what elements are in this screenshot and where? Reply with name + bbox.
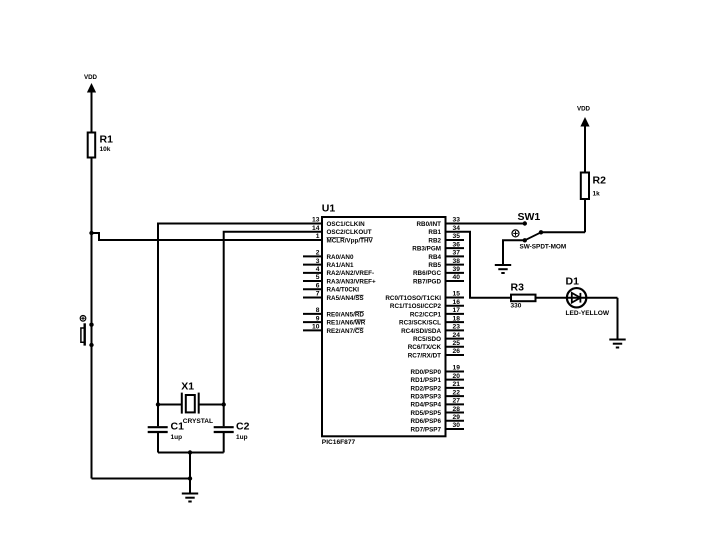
svg-text:17: 17 (453, 307, 461, 314)
svg-text:RA2/AN2/VREF-: RA2/AN2/VREF- (327, 270, 375, 277)
svg-text:VDD: VDD (84, 74, 98, 81)
svg-text:29: 29 (453, 414, 461, 421)
svg-text:37: 37 (453, 250, 461, 257)
svg-text:25: 25 (453, 340, 461, 347)
svg-text:22: 22 (453, 389, 461, 396)
svg-text:1: 1 (316, 233, 320, 240)
svg-text:SW1: SW1 (518, 211, 541, 223)
svg-text:5: 5 (316, 274, 320, 281)
svg-text:RB4: RB4 (428, 254, 441, 261)
svg-text:R2: R2 (593, 175, 607, 187)
svg-text:13: 13 (312, 217, 320, 224)
svg-text:36: 36 (453, 241, 461, 248)
svg-text:21: 21 (453, 381, 461, 388)
svg-text:RB7/PGD: RB7/PGD (413, 278, 441, 285)
svg-text:RB1: RB1 (428, 229, 441, 236)
svg-text:RD4/PSP4: RD4/PSP4 (411, 402, 442, 409)
svg-text:9: 9 (316, 315, 320, 322)
svg-text:1up: 1up (236, 434, 248, 441)
svg-text:RA0/AN0: RA0/AN0 (327, 254, 354, 261)
svg-text:15: 15 (453, 291, 461, 298)
svg-text:1up: 1up (171, 434, 183, 441)
svg-text:RB3/PGM: RB3/PGM (412, 246, 441, 253)
svg-text:RC0/T1OSO/T1CKI: RC0/T1OSO/T1CKI (385, 295, 441, 302)
svg-text:RD3/PSP3: RD3/PSP3 (411, 394, 442, 401)
svg-text:RB5: RB5 (428, 262, 441, 269)
svg-text:7: 7 (316, 291, 320, 298)
svg-text:10: 10 (312, 324, 320, 331)
svg-text:RC2/CCP1: RC2/CCP1 (410, 311, 442, 318)
svg-text:6: 6 (316, 282, 320, 289)
svg-text:RE0/AN5/RD: RE0/AN5/RD (327, 311, 365, 318)
svg-text:MCLR/Vpp/THV: MCLR/Vpp/THV (327, 237, 374, 244)
svg-text:3: 3 (316, 258, 320, 265)
svg-text:RC3/SCK/SCL: RC3/SCK/SCL (399, 320, 441, 327)
svg-text:33: 33 (453, 217, 461, 224)
svg-text:RA1/AN1: RA1/AN1 (327, 262, 354, 269)
svg-text:OSC2/CLKOUT: OSC2/CLKOUT (327, 229, 372, 236)
svg-text:26: 26 (453, 348, 461, 355)
svg-text:23: 23 (453, 324, 461, 331)
svg-text:24: 24 (453, 332, 461, 339)
svg-text:RD1/PSP1: RD1/PSP1 (411, 377, 442, 384)
svg-text:RA3/AN3/VREF+: RA3/AN3/VREF+ (327, 278, 376, 285)
svg-text:RB0/INT: RB0/INT (417, 221, 442, 228)
svg-text:RB2: RB2 (428, 237, 441, 244)
svg-text:D1: D1 (566, 275, 580, 287)
svg-text:RD6/PSP6: RD6/PSP6 (411, 418, 442, 425)
svg-text:14: 14 (312, 225, 320, 232)
svg-text:RB6/PGC: RB6/PGC (413, 270, 441, 277)
svg-text:R1: R1 (100, 134, 114, 146)
svg-text:10k: 10k (100, 146, 111, 153)
svg-text:30: 30 (453, 422, 461, 429)
svg-text:RC6/TX/CK: RC6/TX/CK (408, 344, 442, 351)
svg-text:RD5/PSP5: RD5/PSP5 (411, 410, 442, 417)
svg-text:18: 18 (453, 315, 461, 322)
svg-text:2: 2 (316, 250, 320, 257)
svg-text:40: 40 (453, 274, 461, 281)
svg-text:RC7/RX/DT: RC7/RX/DT (408, 352, 441, 359)
svg-text:RC5/SDO: RC5/SDO (413, 336, 441, 343)
svg-text:RA4/T0CKI: RA4/T0CKI (327, 287, 360, 294)
svg-text:R3: R3 (511, 282, 525, 294)
svg-text:RD7/PSP7: RD7/PSP7 (411, 426, 442, 433)
svg-text:SW-SPDT-MOM: SW-SPDT-MOM (520, 244, 567, 251)
svg-text:1k: 1k (593, 191, 601, 198)
svg-text:PIC16F877: PIC16F877 (322, 439, 356, 446)
svg-text:20: 20 (453, 373, 461, 380)
svg-text:X1: X1 (181, 381, 194, 393)
svg-text:C2: C2 (236, 420, 250, 432)
svg-text:VDD: VDD (577, 106, 591, 113)
svg-text:34: 34 (453, 225, 461, 232)
svg-text:27: 27 (453, 398, 461, 405)
svg-text:330: 330 (511, 302, 522, 309)
svg-text:16: 16 (453, 299, 461, 306)
svg-text:LED-YELLOW: LED-YELLOW (566, 310, 610, 317)
svg-text:4: 4 (316, 266, 320, 273)
svg-text:CRYSTAL: CRYSTAL (183, 418, 213, 425)
svg-text:RD2/PSP2: RD2/PSP2 (411, 385, 442, 392)
svg-text:38: 38 (453, 258, 461, 265)
svg-text:35: 35 (453, 233, 461, 240)
svg-text:RE2/AN7/CS: RE2/AN7/CS (327, 328, 364, 335)
svg-text:RC1/T1OSI/CCP2: RC1/T1OSI/CCP2 (390, 303, 442, 310)
svg-text:39: 39 (453, 266, 461, 273)
svg-text:8: 8 (316, 307, 320, 314)
svg-text:U1: U1 (322, 203, 336, 215)
svg-text:RE1/AN6/WR: RE1/AN6/WR (327, 320, 366, 327)
svg-text:OSC1/CLKIN: OSC1/CLKIN (327, 221, 366, 228)
svg-text:RD0/PSP0: RD0/PSP0 (411, 369, 442, 376)
svg-text:RC4/SDI/SDA: RC4/SDI/SDA (401, 328, 441, 335)
svg-text:RA5/AN4/SS: RA5/AN4/SS (327, 295, 364, 302)
svg-text:28: 28 (453, 406, 461, 413)
svg-text:19: 19 (453, 365, 461, 372)
